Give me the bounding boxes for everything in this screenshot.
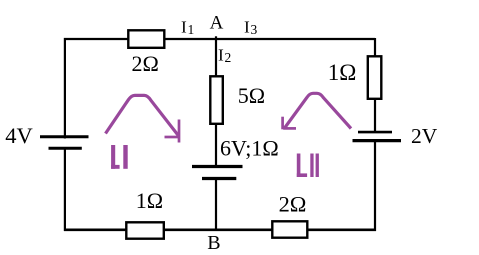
svg-text:2Ω: 2Ω bbox=[279, 191, 307, 216]
svg-text:1Ω: 1Ω bbox=[328, 60, 357, 85]
svg-text:6V;1Ω: 6V;1Ω bbox=[220, 136, 279, 161]
svg-text:5Ω: 5Ω bbox=[238, 83, 265, 108]
svg-text:2V: 2V bbox=[411, 124, 438, 148]
svg-text:1Ω: 1Ω bbox=[136, 188, 163, 213]
svg-text:B: B bbox=[207, 232, 220, 254]
svg-text:4V: 4V bbox=[5, 123, 33, 148]
svg-text:2Ω: 2Ω bbox=[132, 51, 159, 76]
svg-text:A: A bbox=[210, 13, 224, 34]
